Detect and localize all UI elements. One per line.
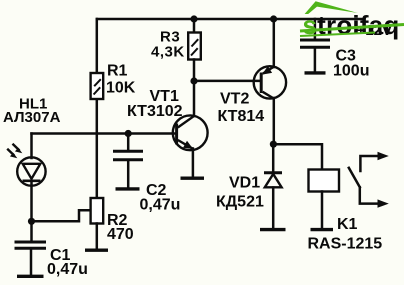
watermark roof — [305, 1, 358, 14]
svg-text:K1: K1 — [337, 216, 358, 233]
watermark swoosh upper — [300, 25, 404, 32]
svg-text:КТ814: КТ814 — [218, 108, 265, 125]
resistor R3 — [188, 19, 201, 60]
junction node C2/base — [125, 130, 132, 137]
junction node VT2 collector / VD1 / relay — [270, 141, 277, 148]
svg-text:4,3K: 4,3K — [151, 44, 185, 61]
capacitor C2 — [113, 134, 143, 189]
svg-text:0,47u: 0,47u — [140, 197, 181, 214]
diode VD1 — [260, 144, 286, 230]
relay contact lower throw — [360, 187, 389, 207]
resistor R2 — [85, 198, 108, 250]
wire VT1 collector to VT2 base — [194, 80, 261, 83]
resistor R1 — [91, 73, 104, 99]
svg-text:КТ3102: КТ3102 — [127, 103, 183, 120]
capacitor C1 — [15, 221, 47, 276]
svg-text:RAS-1215: RAS-1215 — [308, 235, 383, 252]
svg-text:470: 470 — [107, 226, 134, 243]
wire VT1 base horizontal — [32, 132, 177, 135]
wire top +12V rail — [97, 18, 362, 21]
svg-text:100u: 100u — [333, 63, 369, 80]
capacitor C3 — [300, 19, 330, 73]
transistor VT1 — [173, 115, 208, 178]
watermark swoosh lower — [300, 33, 375, 37]
relay contact blade — [349, 168, 360, 187]
svg-text:10K: 10K — [106, 80, 136, 97]
junction node top rail / R3 — [190, 15, 197, 22]
wire collector node to relay coil — [273, 144, 322, 169]
svg-text:R1: R1 — [107, 63, 128, 80]
svg-text:VT2: VT2 — [220, 90, 249, 107]
svg-text:VD1: VD1 — [229, 175, 260, 192]
junction node R3/VT1/VT2 base — [190, 77, 197, 84]
svg-text:0,47u: 0,47u — [47, 261, 88, 278]
relay contact upper throw — [360, 152, 388, 171]
LED HL1 — [17, 134, 45, 222]
junction node LED/C1/R2tap — [28, 218, 35, 225]
transistor VT2 — [254, 19, 286, 144]
svg-text:КД521: КД521 — [216, 193, 264, 210]
photo arrow upper — [13, 144, 23, 154]
wire R3 bottom to VT1 collector — [193, 60, 196, 117]
svg-text:АЛ307А: АЛ307А — [3, 109, 61, 126]
wire R2 tap step — [32, 210, 91, 221]
relay coil K1 — [309, 170, 340, 230]
photo arrow lower — [7, 149, 17, 159]
wire left vertical R1-R2 branch — [96, 19, 99, 198]
junction node top rail / VT2 emitter — [270, 15, 277, 22]
